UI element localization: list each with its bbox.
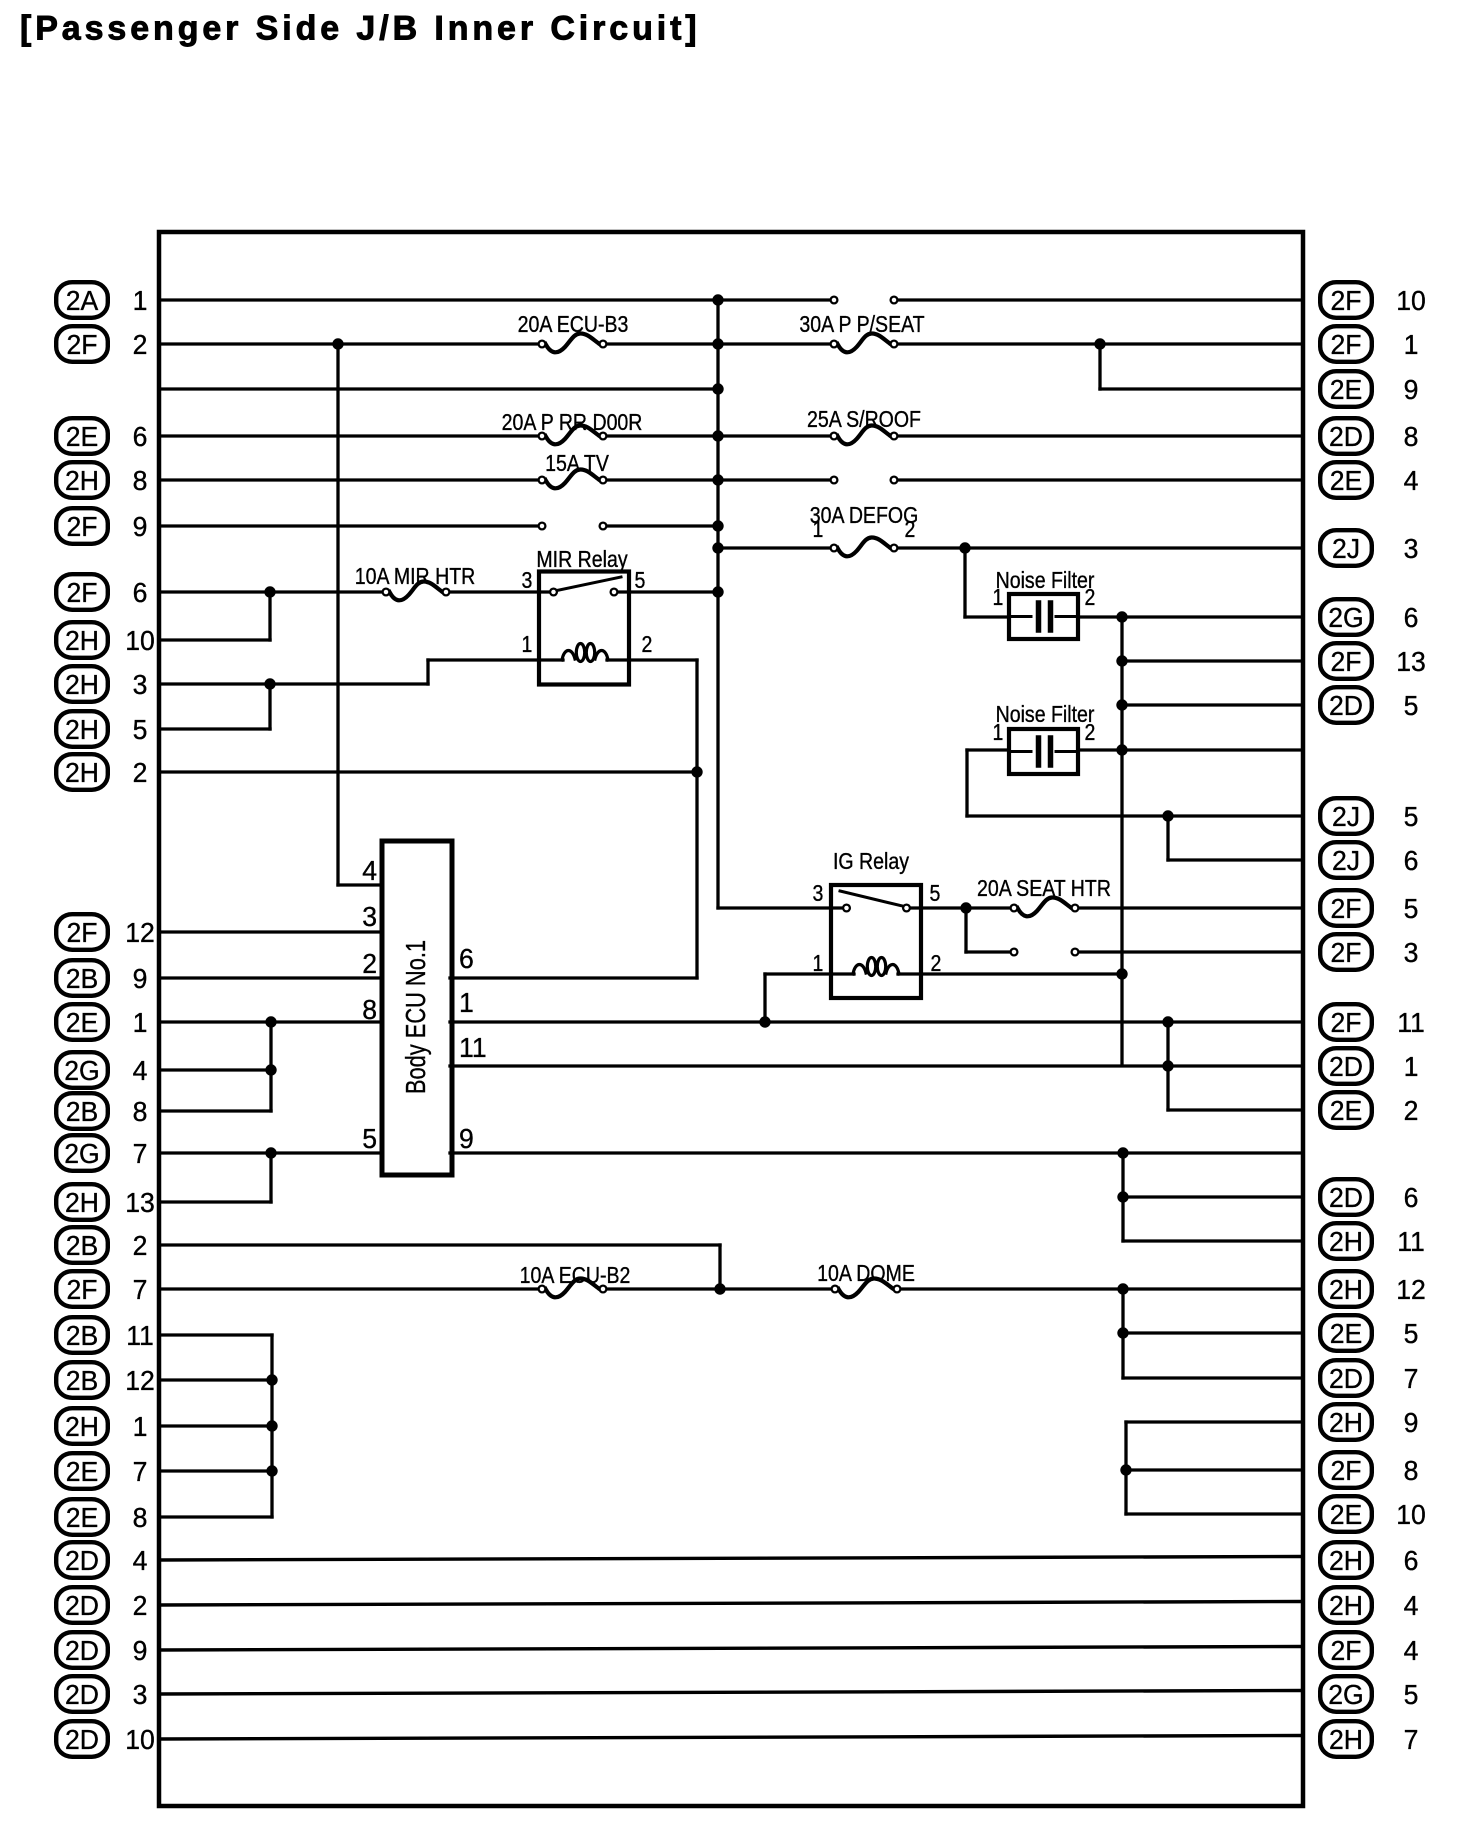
svg-text:3: 3 bbox=[133, 668, 148, 700]
svg-text:2F: 2F bbox=[66, 1273, 97, 1305]
svg-text:6: 6 bbox=[1404, 1544, 1419, 1576]
svg-text:20A P RR D00R: 20A P RR D00R bbox=[502, 410, 643, 436]
svg-text:2D: 2D bbox=[65, 1723, 99, 1755]
svg-text:2: 2 bbox=[1085, 720, 1096, 746]
svg-text:2F: 2F bbox=[1330, 328, 1361, 360]
svg-text:2E: 2E bbox=[1330, 1317, 1363, 1349]
svg-text:2G: 2G bbox=[64, 1054, 99, 1086]
svg-text:3: 3 bbox=[522, 568, 533, 594]
svg-text:1: 1 bbox=[813, 951, 824, 977]
svg-text:2D: 2D bbox=[65, 1589, 99, 1621]
svg-text:2: 2 bbox=[133, 1229, 148, 1261]
svg-text:4: 4 bbox=[362, 854, 377, 886]
svg-text:2F: 2F bbox=[1330, 936, 1361, 968]
svg-text:2F: 2F bbox=[66, 576, 97, 608]
svg-text:Noise Filter: Noise Filter bbox=[996, 702, 1095, 728]
svg-text:2B: 2B bbox=[66, 1364, 99, 1396]
svg-text:4: 4 bbox=[1404, 464, 1419, 496]
svg-text:5: 5 bbox=[1404, 1317, 1419, 1349]
svg-text:10: 10 bbox=[1396, 284, 1426, 316]
svg-text:2: 2 bbox=[133, 328, 148, 360]
svg-text:20A ECU-B3: 20A ECU-B3 bbox=[518, 312, 629, 338]
svg-text:2J: 2J bbox=[1332, 800, 1360, 832]
svg-text:9: 9 bbox=[1404, 1406, 1419, 1438]
svg-text:9: 9 bbox=[133, 1634, 148, 1666]
svg-text:7: 7 bbox=[133, 1137, 148, 1169]
svg-text:2: 2 bbox=[642, 632, 653, 658]
svg-text:3: 3 bbox=[1404, 936, 1419, 968]
svg-text:Body ECU No.1: Body ECU No.1 bbox=[400, 940, 431, 1094]
svg-text:2E: 2E bbox=[66, 1006, 99, 1038]
svg-text:6: 6 bbox=[133, 420, 148, 452]
svg-text:2F: 2F bbox=[66, 916, 97, 948]
svg-text:2: 2 bbox=[905, 517, 916, 543]
svg-text:2H: 2H bbox=[65, 1186, 99, 1218]
svg-text:2H: 2H bbox=[65, 668, 99, 700]
svg-text:2H: 2H bbox=[65, 713, 99, 745]
svg-text:1: 1 bbox=[133, 284, 148, 316]
svg-text:13: 13 bbox=[125, 1186, 155, 1218]
svg-text:10: 10 bbox=[125, 624, 155, 656]
svg-text:6: 6 bbox=[1404, 601, 1419, 633]
svg-text:2H: 2H bbox=[1329, 1723, 1363, 1755]
svg-text:30A DEFOG: 30A DEFOG bbox=[810, 503, 919, 529]
svg-text:2F: 2F bbox=[1330, 1634, 1361, 1666]
svg-text:[Passenger Side J/B Inner Circ: [Passenger Side J/B Inner Circuit] bbox=[20, 10, 701, 48]
svg-text:10A MIR HTR: 10A MIR HTR bbox=[355, 564, 475, 590]
svg-text:2B: 2B bbox=[66, 1229, 99, 1261]
svg-text:2: 2 bbox=[133, 756, 148, 788]
svg-text:2F: 2F bbox=[66, 328, 97, 360]
svg-text:7: 7 bbox=[133, 1455, 148, 1487]
svg-text:4: 4 bbox=[133, 1544, 148, 1576]
svg-text:2: 2 bbox=[362, 947, 377, 979]
svg-text:2F: 2F bbox=[1330, 1006, 1361, 1038]
svg-text:2H: 2H bbox=[65, 624, 99, 656]
svg-text:MIR Relay: MIR Relay bbox=[536, 547, 627, 573]
svg-text:2F: 2F bbox=[66, 510, 97, 542]
svg-text:3: 3 bbox=[133, 1678, 148, 1710]
svg-text:2: 2 bbox=[1404, 1094, 1419, 1126]
svg-text:7: 7 bbox=[1404, 1362, 1419, 1394]
svg-text:3: 3 bbox=[362, 900, 377, 932]
svg-text:2E: 2E bbox=[66, 420, 99, 452]
svg-text:8: 8 bbox=[362, 993, 377, 1025]
svg-text:8: 8 bbox=[1404, 1454, 1419, 1486]
svg-text:4: 4 bbox=[133, 1054, 148, 1086]
svg-text:2F: 2F bbox=[1330, 645, 1361, 677]
svg-text:2A: 2A bbox=[66, 284, 99, 316]
svg-text:2E: 2E bbox=[1330, 1498, 1363, 1530]
svg-text:13: 13 bbox=[1396, 645, 1426, 677]
svg-text:2D: 2D bbox=[65, 1634, 99, 1666]
svg-text:2E: 2E bbox=[66, 1455, 99, 1487]
svg-text:6: 6 bbox=[1404, 844, 1419, 876]
svg-text:2J: 2J bbox=[1332, 532, 1360, 564]
svg-text:8: 8 bbox=[133, 464, 148, 496]
svg-text:2E: 2E bbox=[1330, 464, 1363, 496]
svg-text:2D: 2D bbox=[1329, 1181, 1363, 1213]
svg-text:1: 1 bbox=[133, 1006, 148, 1038]
svg-text:12: 12 bbox=[125, 916, 155, 948]
svg-text:6: 6 bbox=[1404, 1181, 1419, 1213]
svg-text:1: 1 bbox=[459, 986, 474, 1018]
svg-text:5: 5 bbox=[930, 881, 941, 907]
svg-text:8: 8 bbox=[1404, 420, 1419, 452]
svg-text:15A TV: 15A TV bbox=[545, 451, 609, 477]
svg-text:2H: 2H bbox=[1329, 1589, 1363, 1621]
svg-text:2H: 2H bbox=[65, 464, 99, 496]
svg-text:2B: 2B bbox=[66, 962, 99, 994]
svg-text:1: 1 bbox=[813, 517, 824, 543]
svg-text:7: 7 bbox=[133, 1273, 148, 1305]
svg-text:10: 10 bbox=[125, 1723, 155, 1755]
svg-text:2B: 2B bbox=[66, 1319, 99, 1351]
svg-text:30A P P/SEAT: 30A P P/SEAT bbox=[799, 312, 924, 338]
svg-text:4: 4 bbox=[1404, 1634, 1419, 1666]
svg-text:2J: 2J bbox=[1332, 844, 1360, 876]
svg-text:3: 3 bbox=[1404, 532, 1419, 564]
svg-text:5: 5 bbox=[133, 713, 148, 745]
svg-text:2D: 2D bbox=[1329, 1050, 1363, 1082]
svg-text:2F: 2F bbox=[1330, 1454, 1361, 1486]
svg-text:11: 11 bbox=[1397, 1006, 1425, 1038]
svg-text:Noise Filter: Noise Filter bbox=[996, 568, 1095, 594]
svg-text:1: 1 bbox=[1404, 1050, 1419, 1082]
svg-text:20A SEAT HTR: 20A SEAT HTR bbox=[977, 876, 1111, 902]
svg-text:2D: 2D bbox=[65, 1544, 99, 1576]
svg-text:7: 7 bbox=[1404, 1723, 1419, 1755]
svg-text:2G: 2G bbox=[1328, 601, 1363, 633]
svg-text:11: 11 bbox=[459, 1031, 487, 1063]
svg-text:5: 5 bbox=[1404, 1678, 1419, 1710]
svg-text:10: 10 bbox=[1396, 1498, 1426, 1530]
svg-text:1: 1 bbox=[993, 720, 1004, 746]
svg-text:3: 3 bbox=[813, 881, 824, 907]
svg-text:12: 12 bbox=[1396, 1273, 1426, 1305]
svg-text:2E: 2E bbox=[1330, 373, 1363, 405]
svg-text:2G: 2G bbox=[1328, 1678, 1363, 1710]
svg-text:11: 11 bbox=[1397, 1225, 1425, 1257]
svg-text:25A S/ROOF: 25A S/ROOF bbox=[807, 407, 921, 433]
svg-text:1: 1 bbox=[133, 1410, 148, 1442]
svg-text:5: 5 bbox=[1404, 689, 1419, 721]
svg-text:4: 4 bbox=[1404, 1589, 1419, 1621]
svg-text:2B: 2B bbox=[66, 1095, 99, 1127]
svg-text:2H: 2H bbox=[1329, 1225, 1363, 1257]
svg-text:2: 2 bbox=[1085, 585, 1096, 611]
svg-text:5: 5 bbox=[1404, 800, 1419, 832]
svg-text:2D: 2D bbox=[65, 1678, 99, 1710]
svg-text:8: 8 bbox=[133, 1095, 148, 1127]
svg-text:11: 11 bbox=[126, 1319, 154, 1351]
svg-text:2F: 2F bbox=[1330, 892, 1361, 924]
svg-text:9: 9 bbox=[133, 510, 148, 542]
svg-text:2F: 2F bbox=[1330, 284, 1361, 316]
svg-text:2H: 2H bbox=[65, 756, 99, 788]
svg-text:1: 1 bbox=[522, 632, 533, 658]
svg-text:10A DOME: 10A DOME bbox=[817, 1261, 915, 1287]
svg-text:12: 12 bbox=[125, 1364, 155, 1396]
svg-text:10A ECU-B2: 10A ECU-B2 bbox=[520, 1263, 631, 1289]
svg-text:5: 5 bbox=[635, 568, 646, 594]
svg-text:1: 1 bbox=[993, 585, 1004, 611]
svg-text:9: 9 bbox=[133, 962, 148, 994]
svg-text:2D: 2D bbox=[1329, 420, 1363, 452]
svg-text:2: 2 bbox=[133, 1589, 148, 1621]
svg-text:5: 5 bbox=[1404, 892, 1419, 924]
svg-text:1: 1 bbox=[1404, 328, 1419, 360]
svg-text:2H: 2H bbox=[65, 1410, 99, 1442]
svg-text:5: 5 bbox=[362, 1122, 377, 1154]
svg-text:9: 9 bbox=[1404, 373, 1419, 405]
svg-text:2H: 2H bbox=[1329, 1273, 1363, 1305]
svg-text:2D: 2D bbox=[1329, 689, 1363, 721]
svg-text:2H: 2H bbox=[1329, 1544, 1363, 1576]
svg-text:2: 2 bbox=[931, 951, 942, 977]
svg-text:IG Relay: IG Relay bbox=[833, 849, 909, 875]
svg-text:9: 9 bbox=[459, 1122, 474, 1154]
svg-text:2H: 2H bbox=[1329, 1406, 1363, 1438]
svg-text:2E: 2E bbox=[66, 1501, 99, 1533]
svg-text:2G: 2G bbox=[64, 1137, 99, 1169]
svg-text:6: 6 bbox=[133, 576, 148, 608]
svg-text:8: 8 bbox=[133, 1501, 148, 1533]
svg-text:2E: 2E bbox=[1330, 1094, 1363, 1126]
svg-text:6: 6 bbox=[459, 942, 474, 974]
svg-text:2D: 2D bbox=[1329, 1362, 1363, 1394]
